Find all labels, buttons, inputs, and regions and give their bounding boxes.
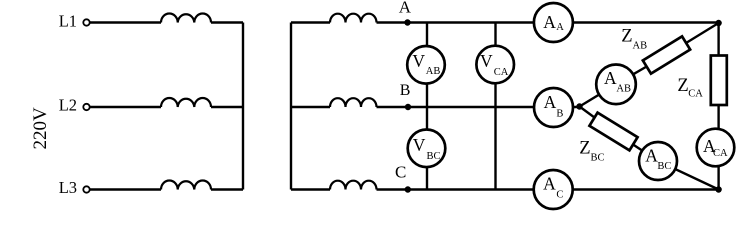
svg-text:B: B bbox=[556, 109, 563, 120]
wire L2 line left bbox=[90, 106, 161, 108]
wire phase A from bus bbox=[291, 21, 330, 23]
ammeter AB-phase circle bbox=[534, 88, 573, 127]
svg-text:C: C bbox=[395, 163, 406, 182]
junction dot delta bottom-right corner bbox=[715, 186, 721, 192]
svg-text:C: C bbox=[556, 190, 563, 201]
svg-text:V: V bbox=[412, 51, 425, 71]
svg-text:Z: Z bbox=[677, 76, 688, 96]
svg-text:L2: L2 bbox=[59, 96, 77, 115]
node C junction dot bbox=[405, 186, 411, 192]
svg-text:BC: BC bbox=[657, 161, 671, 172]
voltmeter VAB circle bbox=[407, 46, 445, 84]
svg-text:A: A bbox=[399, 0, 412, 17]
svg-text:Z: Z bbox=[579, 138, 590, 158]
wire L1 line left bbox=[90, 21, 161, 23]
ammeter ACA circle bbox=[697, 129, 735, 167]
wire L3 to left bus bbox=[211, 188, 243, 190]
wire L1 to left bus bbox=[211, 21, 243, 23]
svg-text:BC: BC bbox=[591, 152, 605, 163]
wire left vertical bus bbox=[242, 23, 244, 190]
terminal L1 bbox=[83, 19, 89, 25]
inductor phase C coil bbox=[330, 181, 377, 190]
svg-text:L3: L3 bbox=[59, 178, 77, 197]
impedance ZAB box bbox=[643, 36, 690, 73]
svg-text:AB: AB bbox=[633, 40, 648, 51]
wire phase B from bus bbox=[291, 106, 330, 108]
wire delta branch CA right vertical bbox=[717, 23, 719, 190]
wire phase C line bbox=[377, 188, 719, 190]
svg-text:BC: BC bbox=[427, 151, 441, 162]
ammeter AC-phase circle bbox=[534, 170, 573, 209]
voltmeter VCA circle bbox=[476, 46, 514, 84]
wire voltmeter VCA drop bbox=[494, 23, 496, 190]
wire right vertical bus bbox=[290, 23, 292, 190]
wire phase B line bbox=[377, 106, 580, 108]
svg-text:Z: Z bbox=[621, 26, 632, 46]
svg-text:A: A bbox=[556, 22, 564, 33]
ammeter AAB circle bbox=[596, 65, 636, 105]
svg-text:B: B bbox=[400, 82, 411, 99]
voltmeter VBC circle bbox=[408, 130, 446, 168]
svg-text:A: A bbox=[645, 146, 658, 166]
svg-text:L1: L1 bbox=[59, 12, 77, 31]
wire delta branch BC bbox=[580, 107, 719, 190]
node A junction dot bbox=[404, 19, 410, 25]
node B junction dot bbox=[405, 104, 411, 110]
terminal L2 bbox=[83, 104, 89, 110]
impedance ZCA box bbox=[711, 56, 727, 106]
junction dot delta B corner bbox=[576, 103, 582, 109]
wire L3 line left bbox=[90, 188, 161, 190]
svg-text:V: V bbox=[480, 51, 493, 71]
impedance ZBC box bbox=[589, 113, 637, 151]
wire voltmeter VAB drop bbox=[426, 23, 428, 108]
terminal L3 bbox=[83, 186, 89, 192]
svg-text:CA: CA bbox=[713, 148, 728, 159]
svg-text:AB: AB bbox=[426, 66, 441, 77]
svg-text:V: V bbox=[413, 135, 426, 155]
wire L2 to left bus bbox=[211, 106, 243, 108]
wire voltmeter VBC drop bbox=[426, 107, 428, 190]
svg-text:A: A bbox=[543, 173, 556, 193]
junction dot delta top-right corner bbox=[715, 20, 721, 26]
wire phase C from bus bbox=[291, 188, 330, 190]
svg-text:A: A bbox=[543, 12, 556, 32]
svg-text:CA: CA bbox=[494, 67, 509, 78]
ammeter AA circle bbox=[534, 3, 573, 42]
inductor phase B coil bbox=[330, 98, 377, 107]
svg-text:220V: 220V bbox=[30, 107, 51, 150]
wire phase A line bbox=[377, 21, 719, 23]
ammeter ABC circle bbox=[639, 142, 677, 180]
svg-text:A: A bbox=[604, 68, 617, 88]
inductor phase A coil bbox=[330, 14, 377, 23]
wire delta branch AB bbox=[580, 23, 719, 107]
svg-text:A: A bbox=[544, 92, 557, 112]
inductor L3 left coil bbox=[161, 180, 211, 189]
svg-text:CA: CA bbox=[688, 89, 703, 100]
inductor L1 left coil bbox=[161, 13, 211, 22]
svg-text:AB: AB bbox=[616, 84, 631, 95]
inductor L2 left coil bbox=[161, 98, 211, 107]
